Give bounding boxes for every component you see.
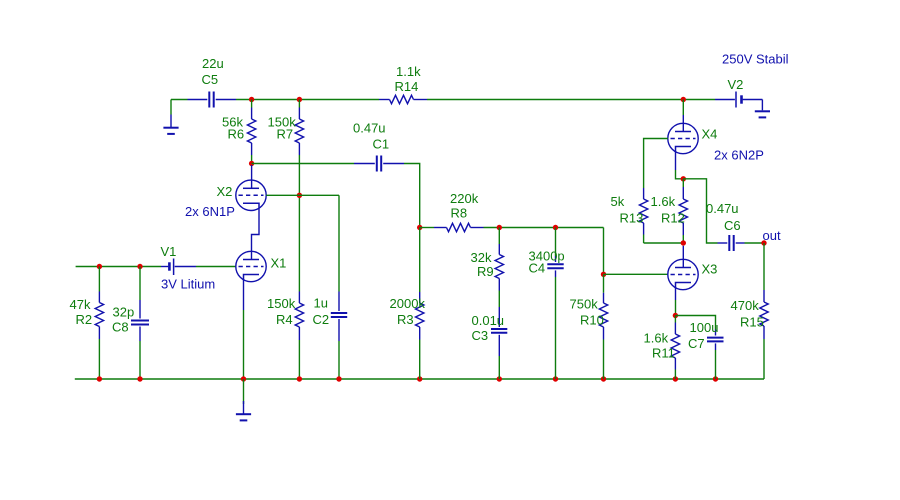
svg-text:1.6k: 1.6k xyxy=(651,194,676,209)
resistor R6 xyxy=(247,100,255,164)
label R3 values xyxy=(390,296,426,327)
label C5 values xyxy=(202,56,224,87)
ground bottom xyxy=(236,379,251,420)
label C1 values xyxy=(353,121,389,152)
wire R6 bottom to C1 xyxy=(252,163,354,165)
wire X2 grid xyxy=(266,194,339,196)
svg-text:C5: C5 xyxy=(202,72,219,87)
wire X2 anode xyxy=(251,165,253,188)
label X3 xyxy=(702,262,718,277)
svg-text:150k: 150k xyxy=(267,296,296,311)
label R2 values xyxy=(70,297,93,327)
label R12 values xyxy=(651,194,685,226)
triode X3 xyxy=(668,259,698,289)
node rail C4 xyxy=(553,376,558,381)
node rail R3 xyxy=(417,376,422,381)
svg-text:C8: C8 xyxy=(112,320,129,335)
svg-text:X3: X3 xyxy=(702,262,718,277)
label 2x 6N1P xyxy=(185,204,235,219)
svg-text:470k: 470k xyxy=(731,298,760,313)
svg-text:X4: X4 xyxy=(702,127,718,142)
label X1 xyxy=(271,256,287,271)
node rail C3 xyxy=(497,376,502,381)
battery V2 xyxy=(715,92,762,111)
triode X4 xyxy=(668,123,698,153)
wire X2 cathode to X1 anode xyxy=(252,208,260,259)
svg-text:R8: R8 xyxy=(451,206,468,221)
label X2 xyxy=(217,184,233,199)
wire R8 to X3 grid line xyxy=(484,228,604,275)
svg-text:5k: 5k xyxy=(611,194,625,209)
node X4 cathode xyxy=(681,176,686,181)
node C4 top xyxy=(553,225,558,230)
label C7 values xyxy=(688,320,718,351)
resistor R7 xyxy=(295,100,303,292)
node X3 anode / R12 R13 xyxy=(681,240,686,245)
node rail R4 xyxy=(297,376,302,381)
svg-text:out: out xyxy=(763,228,781,243)
svg-text:2x 6N2P: 2x 6N2P xyxy=(714,148,764,163)
svg-text:V2: V2 xyxy=(728,77,744,92)
capacitor C1 xyxy=(354,156,404,172)
wire X3 grid xyxy=(604,273,668,275)
svg-text:1.6k: 1.6k xyxy=(644,331,669,346)
node R2 top xyxy=(97,264,102,269)
wire top rail C5 to R14 xyxy=(236,99,379,101)
svg-text:R13: R13 xyxy=(620,211,644,226)
wire bottom rail xyxy=(75,378,764,380)
wire X3 cathode xyxy=(675,288,677,316)
wire C6 to out xyxy=(745,242,765,244)
label C4 values xyxy=(529,249,565,276)
node rail C8 xyxy=(137,376,142,381)
wire input left xyxy=(76,266,161,268)
svg-text:22u: 22u xyxy=(202,56,224,71)
label C2 values xyxy=(313,296,330,328)
label out xyxy=(763,228,781,243)
resistor R12 xyxy=(679,179,687,243)
resistor R13 xyxy=(639,188,683,243)
node R6 top xyxy=(249,97,254,102)
svg-text:R10: R10 xyxy=(580,313,604,328)
node rail X1 cathode xyxy=(241,376,246,381)
label R4 values xyxy=(267,296,296,327)
svg-text:X1: X1 xyxy=(271,256,287,271)
label R8 values xyxy=(450,191,479,221)
svg-text:220k: 220k xyxy=(450,191,479,206)
label 3V Litium xyxy=(161,277,215,292)
node rail C2 xyxy=(336,376,341,381)
label V1 xyxy=(161,244,177,259)
svg-text:3V Litium: 3V Litium xyxy=(161,277,215,292)
svg-text:C1: C1 xyxy=(373,137,390,152)
capacitor C7 xyxy=(675,316,723,380)
node R7 top xyxy=(297,97,302,102)
battery V1 xyxy=(161,259,196,276)
svg-text:R14: R14 xyxy=(395,79,419,94)
node X3 grid / R10 xyxy=(601,272,606,277)
capacitor C3 xyxy=(491,307,507,379)
svg-text:V1: V1 xyxy=(161,244,177,259)
wire X4 cathode to C6 xyxy=(683,179,717,243)
resistor R8 xyxy=(420,223,484,231)
svg-text:32k: 32k xyxy=(471,250,492,265)
label V2 xyxy=(728,77,744,92)
wire X4 grid to R13 xyxy=(644,139,668,189)
svg-text:R11: R11 xyxy=(652,346,675,361)
wire X4 cathode xyxy=(676,152,684,179)
ground V2 xyxy=(755,111,770,117)
node rail C7 xyxy=(713,376,718,381)
svg-text:1.1k: 1.1k xyxy=(396,64,421,79)
wire C1 to R8 node xyxy=(404,164,420,228)
svg-text:R7: R7 xyxy=(277,127,294,142)
capacitor C5 xyxy=(188,92,237,108)
node X2 grid on R7 line xyxy=(297,193,302,198)
label R13 values xyxy=(611,194,644,226)
wire X3 anode xyxy=(682,246,684,268)
label R9 values xyxy=(471,250,494,279)
svg-text:R15: R15 xyxy=(740,315,764,330)
capacitor C6 xyxy=(718,235,745,251)
svg-text:2x 6N1P: 2x 6N1P xyxy=(185,204,235,219)
wire V1 to X1 grid xyxy=(196,266,236,268)
svg-text:C2: C2 xyxy=(313,312,330,327)
triode X1 xyxy=(236,251,266,281)
resistor R11 xyxy=(671,316,679,380)
svg-text:C6: C6 xyxy=(724,218,741,233)
svg-text:C7: C7 xyxy=(688,336,705,351)
resistor R4 xyxy=(295,292,303,380)
label X4 xyxy=(702,127,718,142)
svg-text:32p: 32p xyxy=(113,305,135,320)
label C8 values xyxy=(112,305,134,335)
capacitor C8 xyxy=(131,267,149,380)
svg-text:R9: R9 xyxy=(477,264,494,279)
ground top-left xyxy=(163,115,178,134)
resistor R3 xyxy=(416,228,424,380)
capacitor C4 xyxy=(547,228,563,380)
resistor R10 xyxy=(599,274,607,379)
label C3 values xyxy=(472,313,505,343)
node rail R2 xyxy=(97,376,102,381)
label R14 values xyxy=(395,64,422,94)
label R10 values xyxy=(570,297,604,328)
node R6 bottom / X2 anode xyxy=(249,161,254,166)
node rail R11 xyxy=(673,376,678,381)
node R9 top xyxy=(497,225,502,230)
wire X1 cathode xyxy=(243,280,245,380)
svg-text:R12: R12 xyxy=(661,211,685,226)
svg-text:X2: X2 xyxy=(217,184,233,199)
label C6 values xyxy=(706,201,741,233)
svg-text:R3: R3 xyxy=(397,312,414,327)
label R6 values xyxy=(222,115,244,142)
resistor R15 xyxy=(760,243,768,379)
svg-text:R6: R6 xyxy=(228,127,245,142)
label R11 values xyxy=(644,331,675,361)
svg-text:0.47u: 0.47u xyxy=(706,201,739,216)
svg-text:R2: R2 xyxy=(76,312,93,327)
svg-text:1u: 1u xyxy=(314,296,328,311)
label 2x 6N2P xyxy=(714,148,764,163)
svg-text:47k: 47k xyxy=(70,297,91,312)
wire X4 anode xyxy=(682,100,684,132)
svg-text:C4: C4 xyxy=(529,261,546,276)
wire top rail R14 to V2 xyxy=(427,99,715,101)
label 250V Stabil xyxy=(722,52,789,67)
node rail R10 xyxy=(601,376,606,381)
svg-text:100u: 100u xyxy=(690,320,719,335)
node C8 top xyxy=(137,264,142,269)
svg-text:C3: C3 xyxy=(472,328,489,343)
label R15 values xyxy=(731,298,764,330)
node X3 cathode xyxy=(673,313,678,318)
triode X2 xyxy=(236,180,266,210)
label R7 values xyxy=(268,115,297,142)
svg-text:0.47u: 0.47u xyxy=(353,121,386,136)
svg-text:R4: R4 xyxy=(276,312,293,327)
svg-text:0.01u: 0.01u xyxy=(472,313,505,328)
svg-text:250V Stabil: 250V Stabil xyxy=(722,52,789,67)
resistor R9 xyxy=(495,228,503,308)
resistor R2 xyxy=(95,267,103,380)
svg-text:2000k: 2000k xyxy=(390,296,426,311)
resistor R14 xyxy=(379,95,427,103)
svg-text:750k: 750k xyxy=(570,297,599,312)
node X4 anode top xyxy=(681,97,686,102)
capacitor C2 xyxy=(331,195,347,379)
node out xyxy=(761,240,766,245)
wire top-left corner to C5 xyxy=(171,100,188,115)
node C1/R8/R3 xyxy=(417,225,422,230)
